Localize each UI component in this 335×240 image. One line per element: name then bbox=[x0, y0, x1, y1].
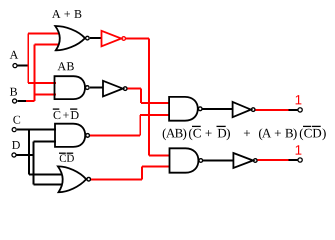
label C bbox=[13, 116, 20, 124]
wire bbox=[203, 160, 233, 162]
inverter U8 bbox=[233, 102, 255, 117]
wire bbox=[18, 65, 29, 67]
node out1 bbox=[298, 108, 302, 112]
label A+B bbox=[52, 10, 81, 18]
inverter U2 (red) bbox=[102, 31, 126, 47]
label B bbox=[10, 88, 17, 96]
wire bbox=[256, 109, 289, 111]
wire bbox=[288, 109, 297, 111]
node out2 bbox=[298, 158, 302, 162]
wire bbox=[90, 37, 102, 39]
wire bbox=[258, 159, 289, 161]
node B bbox=[13, 99, 17, 103]
wire bbox=[91, 166, 170, 179]
label D bbox=[12, 141, 20, 149]
overbar C bbox=[53, 108, 60, 110]
NAND gate U7 bbox=[169, 97, 202, 121]
wire bbox=[17, 130, 63, 175]
overbar expr D1 bbox=[217, 125, 226, 127]
wire bbox=[126, 39, 170, 156]
label output value 1 (bottom) bbox=[296, 145, 302, 154]
inverter U10 bbox=[233, 153, 257, 168]
wire bbox=[289, 159, 298, 161]
wire bbox=[28, 34, 58, 83]
overbar expr C1 bbox=[192, 125, 201, 127]
node D bbox=[12, 153, 16, 157]
expression label bbox=[163, 128, 326, 140]
wire bbox=[90, 87, 103, 89]
overbar D bbox=[70, 108, 77, 110]
inverter U4 bbox=[103, 81, 127, 97]
overbar C bbox=[59, 152, 66, 154]
wire bbox=[17, 142, 63, 185]
NAND gate U3 AB bbox=[55, 76, 90, 99]
label A bbox=[10, 51, 19, 59]
NOR gate U6 CD bbox=[58, 166, 91, 192]
label output value 1 (top) bbox=[296, 95, 302, 104]
wire bbox=[90, 115, 170, 136]
overbar expr D2 bbox=[312, 125, 321, 127]
overbar expr C2 bbox=[303, 125, 311, 127]
wire bbox=[203, 108, 233, 110]
NOR gate U1 A+B bbox=[55, 26, 89, 50]
wire bbox=[17, 100, 26, 102]
label AB bbox=[58, 62, 74, 70]
wire bbox=[26, 45, 59, 102]
wire bbox=[128, 89, 170, 103]
label C+D bbox=[54, 111, 79, 119]
node C bbox=[12, 128, 16, 132]
label CD bbox=[60, 155, 74, 162]
NAND gate U9 bbox=[170, 148, 203, 172]
node A bbox=[13, 64, 17, 68]
NAND gate U5 C+D bbox=[55, 124, 89, 147]
overbar D bbox=[67, 152, 74, 154]
